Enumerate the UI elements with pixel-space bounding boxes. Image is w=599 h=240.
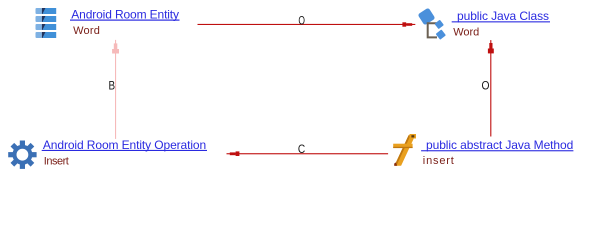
node: public abstract Java Method icon (orange f) (393, 134, 416, 166)
svg-text:insert: insert (423, 155, 454, 167)
node: Android Room Entity icon (list) (36, 8, 57, 38)
node: public Java Class icon (diamonds+bracket) (418, 8, 446, 40)
svg-text:O: O (298, 13, 305, 27)
svg-text:O: O (482, 79, 490, 93)
svg-text:Word: Word (73, 25, 100, 37)
edge O: Java Method -> Java Class (488, 40, 494, 136)
svg-text:Insert: Insert (44, 155, 69, 167)
edge B: Operation -> Entity (pink) (112, 40, 119, 139)
node: Android Room Entity Operation icon (gear) (8, 141, 36, 169)
svg-text:C: C (298, 142, 306, 156)
svg-text:B: B (109, 79, 116, 93)
edge C: Java Method -> Operation (227, 151, 389, 156)
svg-text:public Java Class: public Java Class (457, 9, 549, 23)
svg-text:Android Room Entity Operation: Android Room Entity Operation (43, 138, 206, 152)
edge O: Entity -> Java Class (198, 22, 416, 26)
svg-text:Word: Word (453, 27, 479, 39)
svg-text:public abstract Java Method: public abstract Java Method (426, 138, 573, 152)
